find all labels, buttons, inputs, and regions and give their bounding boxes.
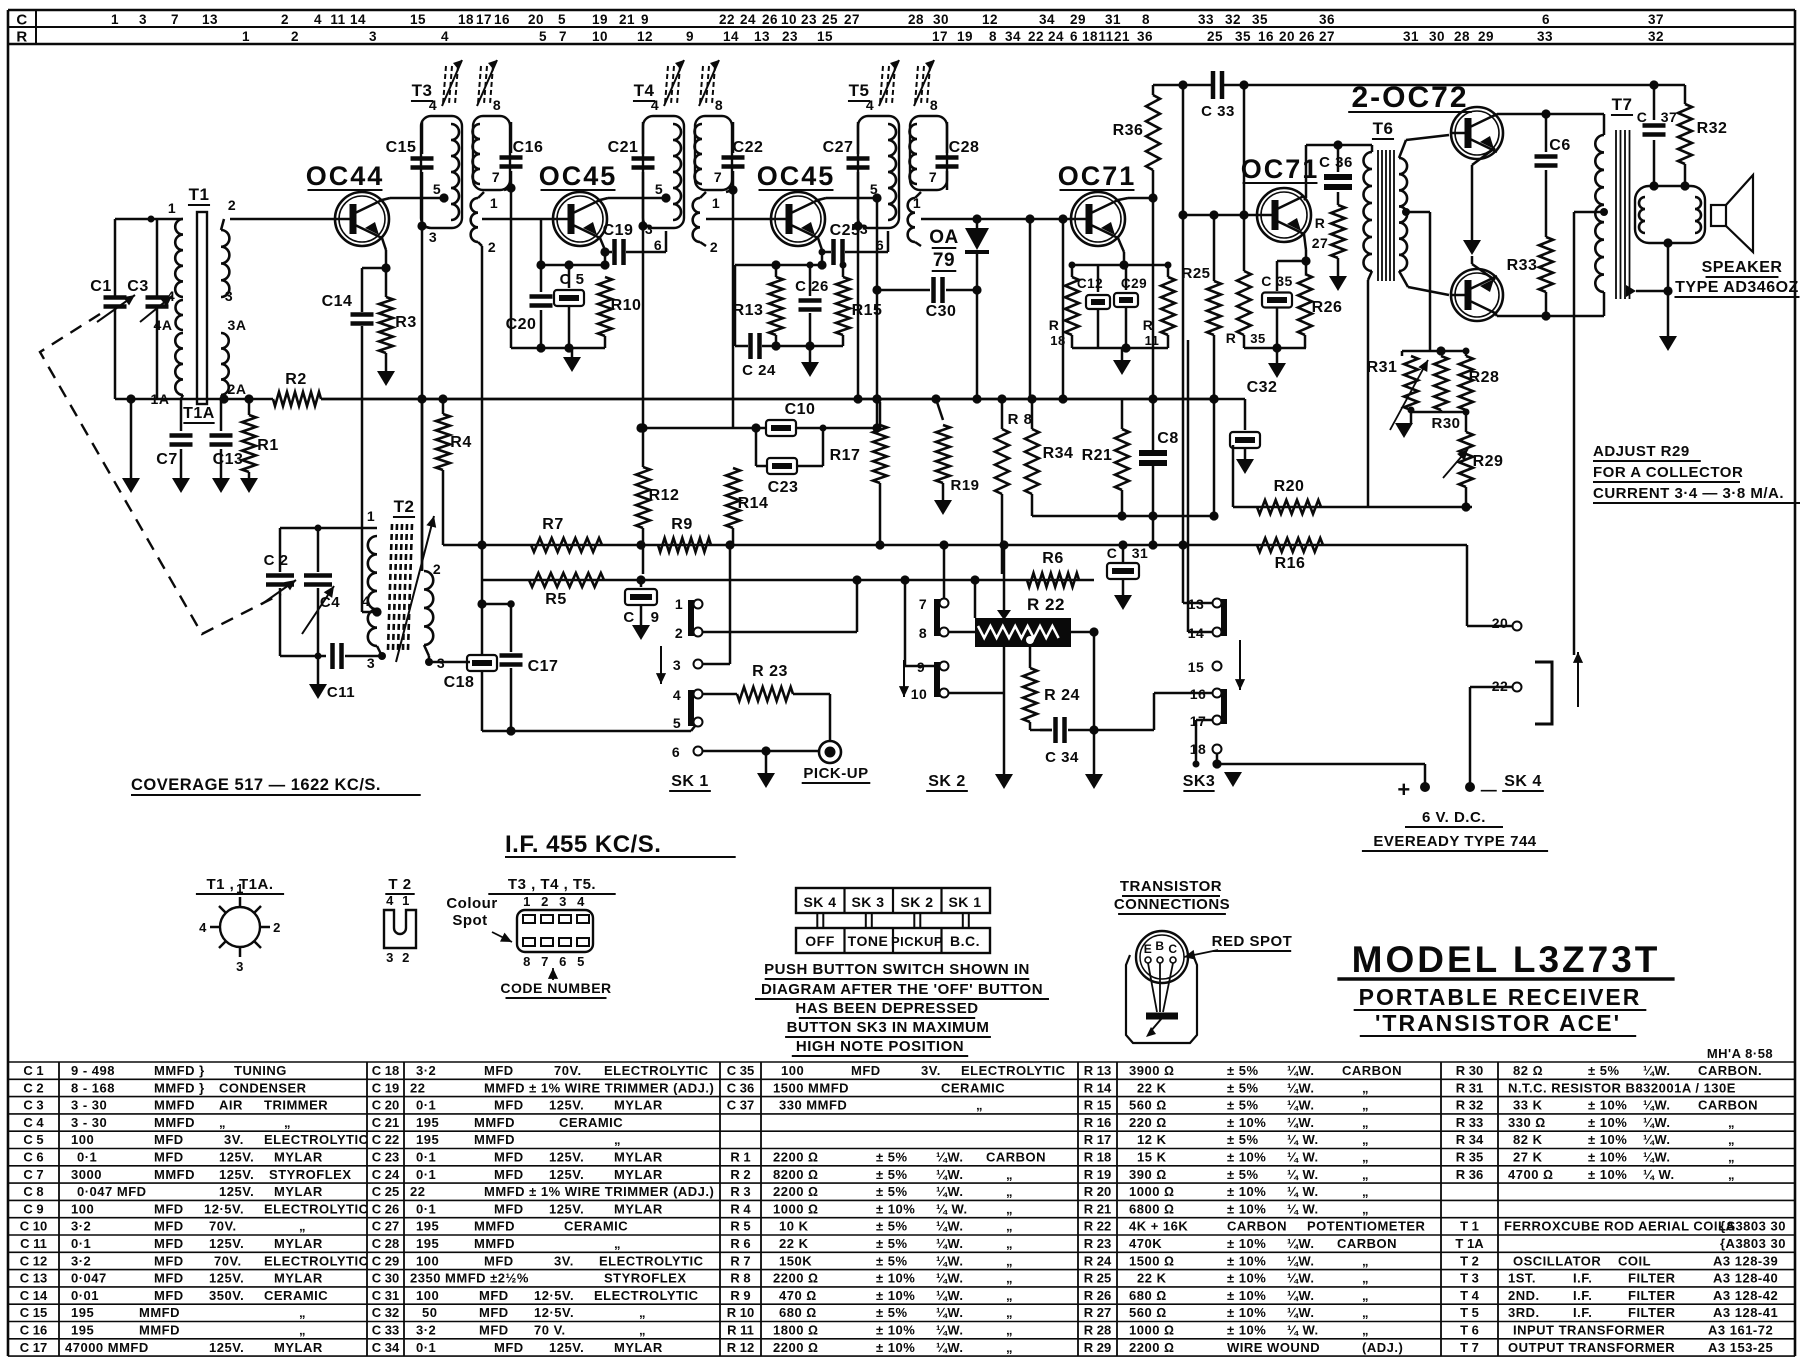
emitter node <box>818 238 822 250</box>
svg-text:1: 1 <box>168 200 176 216</box>
svg-text:MFD: MFD <box>494 1098 524 1113</box>
svg-text:20: 20 <box>528 12 544 27</box>
capacitor C37 <box>1653 85 1656 120</box>
svg-text:¼W.: ¼W. <box>936 1150 964 1165</box>
wire <box>429 661 470 664</box>
svg-text:R 20: R 20 <box>1084 1184 1111 1199</box>
svg-text:18: 18 <box>1082 29 1098 44</box>
svg-text:T 1: T 1 <box>1460 1219 1479 1234</box>
svg-text:C 33: C 33 <box>1201 103 1235 120</box>
svg-text:„: „ <box>1362 1132 1369 1147</box>
wire <box>1003 647 1006 774</box>
svg-text:„: „ <box>1728 1167 1735 1182</box>
svg-text:R2: R2 <box>285 371 306 388</box>
emitter join <box>1472 148 1495 165</box>
svg-text:1: 1 <box>490 195 498 211</box>
svg-text:± 5%: ± 5% <box>1227 1063 1259 1078</box>
coupling coil T5 sec <box>908 198 915 242</box>
resistor R24 <box>1029 647 1032 668</box>
svg-text:R 8: R 8 <box>730 1271 750 1286</box>
svg-text:CARBON: CARBON <box>1337 1236 1397 1251</box>
svg-text:¼W.: ¼W. <box>1643 1150 1671 1165</box>
svg-text:MMFD: MMFD <box>474 1132 515 1147</box>
svg-text:R 16: R 16 <box>1084 1115 1111 1130</box>
svg-text:HAS BEEN DEPRESSED: HAS BEEN DEPRESSED <box>795 1000 978 1017</box>
svg-text:MYLAR: MYLAR <box>274 1150 323 1165</box>
svg-text:R32: R32 <box>1697 120 1728 137</box>
svg-text:C 34: C 34 <box>372 1340 400 1355</box>
capacitor C13 <box>220 399 223 431</box>
svg-text:5: 5 <box>433 181 441 197</box>
resistor R25 <box>1209 210 1218 219</box>
svg-text:SK 2: SK 2 <box>900 894 933 910</box>
wire pin6 <box>702 750 819 753</box>
svg-text:R 27: R 27 <box>1084 1305 1111 1320</box>
svg-text:2: 2 <box>228 197 236 213</box>
svg-text:C12: C12 <box>1077 276 1103 291</box>
pushbutton table <box>796 888 990 913</box>
svg-text:3·2: 3·2 <box>71 1219 91 1234</box>
svg-text:„: „ <box>1728 1115 1735 1130</box>
svg-text:¼W.: ¼W. <box>1287 1253 1315 1268</box>
table grid <box>8 1061 1795 1063</box>
svg-text:32: 32 <box>1225 12 1241 27</box>
svg-text:MFD: MFD <box>154 1150 184 1165</box>
svg-text:± 5%: ± 5% <box>876 1150 908 1165</box>
capacitor C36 <box>1337 145 1340 172</box>
collector wire <box>1304 198 1306 200</box>
svg-text:17: 17 <box>476 12 492 27</box>
ground <box>571 348 574 357</box>
svg-text:5: 5 <box>870 181 878 197</box>
svg-text:4: 4 <box>651 97 659 113</box>
svg-text:1: 1 <box>402 893 410 908</box>
resistor R1 <box>219 394 228 403</box>
svg-text:MYLAR: MYLAR <box>614 1150 663 1165</box>
svg-text:C 33: C 33 <box>372 1323 399 1338</box>
svg-text:125V.: 125V. <box>549 1340 584 1355</box>
svg-text:A3 161-72: A3 161-72 <box>1708 1323 1773 1338</box>
svg-text:5: 5 <box>655 181 663 197</box>
svg-text:1: 1 <box>712 195 720 211</box>
svg-text:¼ W.: ¼ W. <box>1287 1150 1319 1165</box>
wire <box>818 198 826 200</box>
capacitor C29 <box>1125 265 1128 290</box>
svg-text:OC45: OC45 <box>539 161 618 191</box>
wire pin10 <box>948 692 1004 695</box>
svg-text:30: 30 <box>933 12 949 27</box>
svg-text:8 - 168: 8 - 168 <box>71 1080 115 1095</box>
wire <box>115 398 249 401</box>
svg-text:R3: R3 <box>395 314 416 331</box>
svg-text:R 33: R 33 <box>1456 1115 1483 1130</box>
wire pin14 <box>1188 631 1213 634</box>
svg-text:MFD: MFD <box>484 1063 514 1078</box>
svg-text:A3 128-41: A3 128-41 <box>1713 1305 1778 1320</box>
svg-text:22: 22 <box>1028 29 1044 44</box>
svg-text:MMFD }: MMFD } <box>154 1080 205 1095</box>
svg-text:R: R <box>1226 330 1237 346</box>
svg-text:R 21: R 21 <box>1084 1201 1111 1216</box>
svg-text:MMFD: MMFD <box>474 1115 515 1130</box>
svg-text:R 14: R 14 <box>1084 1080 1112 1095</box>
svg-text:„: „ <box>1362 1080 1369 1095</box>
svg-text:C10: C10 <box>785 401 816 418</box>
svg-text:R17: R17 <box>830 447 861 464</box>
svg-text:„: „ <box>1006 1305 1013 1320</box>
svg-text:¼W.: ¼W. <box>936 1167 964 1182</box>
switch SK3 <box>1213 599 1222 608</box>
svg-text:„: „ <box>614 1132 621 1147</box>
svg-text:T 1A: T 1A <box>1455 1236 1484 1251</box>
svg-text:C3: C3 <box>127 278 148 295</box>
svg-text:R 23: R 23 <box>1084 1236 1111 1251</box>
svg-text:R9: R9 <box>671 516 692 533</box>
wire <box>115 218 173 221</box>
svg-text:1: 1 <box>367 508 375 524</box>
svg-text:¼W.: ¼W. <box>1287 1288 1315 1303</box>
svg-text:390 Ω: 390 Ω <box>1129 1167 1167 1182</box>
svg-text:MYLAR: MYLAR <box>614 1340 663 1355</box>
svg-text:C29: C29 <box>1121 276 1147 291</box>
svg-text:± 10%: ± 10% <box>876 1288 915 1303</box>
capacitor C3 <box>156 219 159 296</box>
pickup jack <box>819 741 841 763</box>
svg-text:„: „ <box>976 1098 983 1113</box>
ground <box>1121 348 1124 360</box>
svg-text:PICK-UP: PICK-UP <box>803 765 868 782</box>
resistor R19 <box>931 394 940 403</box>
ground <box>1085 774 1103 789</box>
svg-text:125V.: 125V. <box>209 1271 244 1286</box>
wire <box>511 347 605 350</box>
svg-text:680 Ω: 680 Ω <box>779 1305 817 1320</box>
svg-text:C 9: C 9 <box>23 1201 43 1216</box>
svg-text:2: 2 <box>291 29 299 44</box>
svg-text:CONDENSER: CONDENSER <box>219 1080 307 1095</box>
svg-text:MFD: MFD <box>154 1253 184 1268</box>
svg-text:9: 9 <box>686 29 694 44</box>
svg-text:0·1: 0·1 <box>77 1150 97 1165</box>
svg-text:R 23: R 23 <box>752 663 788 680</box>
svg-text:5: 5 <box>539 29 547 44</box>
svg-text:125V.: 125V. <box>219 1184 254 1199</box>
wire <box>540 219 543 265</box>
svg-text:CERAMIC: CERAMIC <box>559 1115 623 1130</box>
svg-text:220 Ω: 220 Ω <box>1129 1115 1167 1130</box>
ground <box>1224 772 1242 787</box>
svg-text:„: „ <box>284 1115 291 1130</box>
wire <box>482 730 691 733</box>
svg-text:R 24: R 24 <box>1084 1253 1112 1268</box>
svg-text:C 3: C 3 <box>23 1098 43 1113</box>
svg-text:C20: C20 <box>506 316 537 333</box>
svg-text:R 32: R 32 <box>1456 1098 1483 1113</box>
svg-text:± 10%: ± 10% <box>1588 1167 1627 1182</box>
svg-text:R33: R33 <box>1507 257 1538 274</box>
ground <box>1276 348 1279 363</box>
svg-text:MFD: MFD <box>154 1271 184 1286</box>
svg-text:125V.: 125V. <box>549 1098 584 1113</box>
svg-text:C 5: C 5 <box>23 1132 43 1147</box>
svg-text:0·1: 0·1 <box>416 1201 436 1216</box>
svg-text:R 28: R 28 <box>1084 1323 1111 1338</box>
capacitor C32 <box>1209 394 1218 403</box>
svg-text:CARBON: CARBON <box>1227 1219 1287 1234</box>
svg-text:R 26: R 26 <box>1084 1288 1111 1303</box>
wire pin20 <box>1467 625 1513 628</box>
svg-text:¼W.: ¼W. <box>936 1253 964 1268</box>
svg-text:¼W.: ¼W. <box>936 1288 964 1303</box>
svg-text:± 10%: ± 10% <box>1227 1115 1266 1130</box>
ground <box>1463 240 1481 255</box>
svg-text:22 K: 22 K <box>779 1236 809 1251</box>
wire <box>422 226 430 228</box>
svg-text:+: + <box>1397 777 1410 802</box>
svg-text:6: 6 <box>672 744 680 760</box>
IF transformer T5 <box>858 116 899 228</box>
svg-text:2350 MMFD ±2½%: 2350 MMFD ±2½% <box>410 1271 529 1286</box>
svg-text:100: 100 <box>781 1063 804 1078</box>
svg-text:ELECTROLYTIC: ELECTROLYTIC <box>264 1132 369 1147</box>
svg-text:CERAMIC: CERAMIC <box>264 1288 328 1303</box>
svg-text:MYLAR: MYLAR <box>274 1340 323 1355</box>
resistor R9 <box>658 538 711 552</box>
svg-text:R 17: R 17 <box>1084 1132 1111 1147</box>
svg-text:¼W.: ¼W. <box>1287 1271 1315 1286</box>
svg-text:70V.: 70V. <box>554 1063 582 1078</box>
svg-text:R 25: R 25 <box>1084 1271 1111 1286</box>
resistor R11 <box>1167 265 1170 277</box>
svg-text:COVERAGE 517 — 1622 KC/S.: COVERAGE 517 — 1622 KC/S. <box>131 776 381 794</box>
svg-text:MFD: MFD <box>154 1288 184 1303</box>
svg-text:TUNING: TUNING <box>234 1063 287 1078</box>
capacitor C15 <box>421 122 424 154</box>
capacitor C10 <box>641 427 766 430</box>
svg-text:34: 34 <box>1039 12 1055 27</box>
svg-text:29: 29 <box>1478 29 1494 44</box>
svg-text:1: 1 <box>675 596 683 612</box>
svg-text:¼W.: ¼W. <box>936 1271 964 1286</box>
resistor R21 <box>1121 399 1124 429</box>
wire <box>230 218 335 221</box>
svg-text:FILTER: FILTER <box>1628 1271 1676 1286</box>
svg-text:C 26: C 26 <box>372 1201 399 1216</box>
supply rail B <box>443 544 1467 547</box>
svg-text:470K: 470K <box>1129 1236 1162 1251</box>
ground <box>1329 276 1347 291</box>
resistor R12 <box>642 226 645 467</box>
svg-text:150K: 150K <box>779 1253 812 1268</box>
svg-text:8: 8 <box>523 954 531 969</box>
svg-text:MYLAR: MYLAR <box>274 1184 323 1199</box>
collector wire lower <box>1494 312 1497 316</box>
wire pin13 <box>1183 602 1213 605</box>
svg-text:82 Ω: 82 Ω <box>1513 1063 1543 1078</box>
svg-text:30: 30 <box>1429 29 1445 44</box>
wire <box>321 398 1214 401</box>
svg-text:T 7: T 7 <box>1460 1340 1479 1355</box>
svg-text:MFD: MFD <box>479 1323 509 1338</box>
svg-text:SK 2: SK 2 <box>928 773 966 790</box>
wire <box>1032 515 1214 518</box>
svg-text:C8: C8 <box>1157 430 1178 447</box>
svg-text:PORTABLE RECEIVER: PORTABLE RECEIVER <box>1359 984 1642 1010</box>
svg-text:125V.: 125V. <box>549 1167 584 1182</box>
wire <box>1183 214 1257 217</box>
svg-text:4: 4 <box>362 593 370 609</box>
ground <box>632 625 650 640</box>
speaker <box>1635 186 1705 243</box>
svg-text:OFF: OFF <box>805 933 835 949</box>
svg-text:R4: R4 <box>450 434 471 451</box>
svg-text:„: „ <box>1006 1271 1013 1286</box>
svg-text:¼W.: ¼W. <box>936 1323 964 1338</box>
svg-text:37: 37 <box>1648 12 1664 27</box>
svg-text:R 2: R 2 <box>730 1167 750 1182</box>
svg-text:4: 4 <box>577 894 585 909</box>
svg-text:R 34: R 34 <box>1456 1132 1484 1147</box>
svg-text:330 MMFD: 330 MMFD <box>779 1098 847 1113</box>
svg-text:C 16: C 16 <box>20 1323 47 1338</box>
svg-text:¼W.: ¼W. <box>1287 1080 1315 1095</box>
ground <box>1114 595 1132 610</box>
svg-text:T 2: T 2 <box>1460 1253 1479 1268</box>
svg-text:TYPE AD346OZ: TYPE AD346OZ <box>1675 279 1799 296</box>
svg-text:„: „ <box>1006 1323 1013 1338</box>
ground <box>377 371 395 386</box>
svg-text:195: 195 <box>416 1219 439 1234</box>
svg-text:C 27: C 27 <box>372 1219 399 1234</box>
svg-text:I.F. 455 KC/S.: I.F. 455 KC/S. <box>505 831 661 858</box>
svg-text:„: „ <box>1362 1167 1369 1182</box>
svg-text:INPUT TRANSFORMER: INPUT TRANSFORMER <box>1513 1323 1665 1338</box>
svg-text:„: „ <box>1362 1323 1369 1338</box>
svg-text:3: 3 <box>860 221 868 237</box>
svg-text:33 K: 33 K <box>1513 1098 1543 1113</box>
svg-text:TRIMMER: TRIMMER <box>264 1098 328 1113</box>
svg-text:CARBON: CARBON <box>1698 1098 1758 1113</box>
svg-text:SK 3: SK 3 <box>851 894 884 910</box>
svg-text:10: 10 <box>781 12 797 27</box>
svg-text:T6: T6 <box>1373 119 1394 138</box>
svg-text:C17: C17 <box>528 658 559 675</box>
IF transformer T3 <box>421 116 462 228</box>
svg-text:± 5%: ± 5% <box>1227 1098 1259 1113</box>
svg-text:14: 14 <box>350 12 366 27</box>
svg-text:± 10%: ± 10% <box>1227 1288 1266 1303</box>
svg-text:3000: 3000 <box>71 1167 102 1182</box>
svg-text:R1: R1 <box>257 437 278 454</box>
wire <box>876 198 879 428</box>
capacitor C17 <box>510 604 513 652</box>
svg-text:FILTER: FILTER <box>1628 1288 1676 1303</box>
svg-text:4: 4 <box>673 687 681 703</box>
svg-text:1: 1 <box>236 881 244 896</box>
svg-text:± 5%: ± 5% <box>876 1253 908 1268</box>
svg-text:± 10%: ± 10% <box>1588 1115 1627 1130</box>
svg-text:195: 195 <box>71 1323 94 1338</box>
svg-text:2-OC72: 2-OC72 <box>1351 81 1468 114</box>
svg-text:R 3: R 3 <box>730 1184 750 1199</box>
wire pin17 <box>1196 719 1213 722</box>
svg-text:31: 31 <box>1105 12 1121 27</box>
svg-text:C14: C14 <box>322 293 353 310</box>
wire <box>600 198 608 200</box>
resistor R7 <box>531 538 602 552</box>
capacitor C7 <box>180 399 183 431</box>
resistor R5 <box>529 573 604 587</box>
svg-text:3A: 3A <box>228 317 247 333</box>
svg-text:CARBON.: CARBON. <box>1698 1063 1762 1078</box>
resistor R34 <box>1027 394 1036 403</box>
svg-text:R29: R29 <box>1473 453 1504 470</box>
svg-text:„: „ <box>1362 1184 1369 1199</box>
svg-text:C: C <box>1637 109 1648 125</box>
svg-text:8: 8 <box>1142 12 1150 27</box>
svg-text:MMFD }: MMFD } <box>154 1063 205 1078</box>
svg-text:2: 2 <box>710 239 718 255</box>
svg-text:„: „ <box>1362 1305 1369 1320</box>
resistor R6 <box>1027 573 1079 587</box>
svg-text:¼W.: ¼W. <box>936 1236 964 1251</box>
svg-text:C 25: C 25 <box>372 1184 399 1199</box>
svg-text:1000 Ω: 1000 Ω <box>1129 1184 1175 1199</box>
emitter node <box>1118 238 1124 252</box>
svg-text:¼W.: ¼W. <box>1287 1115 1315 1130</box>
svg-text:ELECTROLYTIC: ELECTROLYTIC <box>264 1201 369 1216</box>
svg-text:R 10: R 10 <box>727 1305 754 1320</box>
wire <box>976 290 979 399</box>
svg-text:A3 128-40: A3 128-40 <box>1713 1271 1778 1286</box>
svg-text:2: 2 <box>402 950 410 965</box>
resistor R16 <box>1257 538 1323 552</box>
svg-text:0·01: 0·01 <box>71 1288 99 1303</box>
svg-text:R26: R26 <box>1312 299 1343 316</box>
svg-text:MMFD: MMFD <box>154 1115 195 1130</box>
svg-text:± 10%: ± 10% <box>1227 1150 1266 1165</box>
svg-text:0·047: 0·047 <box>71 1271 107 1286</box>
svg-text:„: „ <box>1362 1098 1369 1113</box>
svg-text:± 10%: ± 10% <box>876 1323 915 1338</box>
svg-text:2: 2 <box>488 239 496 255</box>
svg-text:MFD: MFD <box>494 1167 524 1182</box>
svg-text:3: 3 <box>559 894 567 909</box>
wire <box>921 218 1070 221</box>
svg-text:C 35: C 35 <box>1261 273 1293 289</box>
svg-text:195: 195 <box>416 1115 439 1130</box>
svg-text:± 5%: ± 5% <box>876 1167 908 1182</box>
svg-text:22: 22 <box>1492 678 1509 694</box>
svg-text:R25: R25 <box>1181 265 1210 282</box>
svg-text:± 10%: ± 10% <box>1588 1132 1627 1147</box>
capacitor C12 <box>1097 265 1100 292</box>
svg-text:28: 28 <box>908 12 924 27</box>
svg-text:„: „ <box>1006 1340 1013 1355</box>
svg-text:100: 100 <box>416 1253 439 1268</box>
svg-text:31: 31 <box>1132 545 1149 561</box>
svg-text:C 11: C 11 <box>20 1236 47 1251</box>
svg-text:C 36: C 36 <box>1319 154 1353 171</box>
svg-text:R 29: R 29 <box>1084 1340 1111 1355</box>
svg-text:MYLAR: MYLAR <box>614 1201 663 1216</box>
svg-text:R 35: R 35 <box>1456 1150 1483 1165</box>
svg-text:C 20: C 20 <box>372 1098 399 1113</box>
svg-text:20: 20 <box>1492 615 1509 631</box>
capacitor C4 <box>317 528 320 572</box>
ground <box>1236 459 1254 474</box>
svg-text:OC44: OC44 <box>306 161 385 191</box>
